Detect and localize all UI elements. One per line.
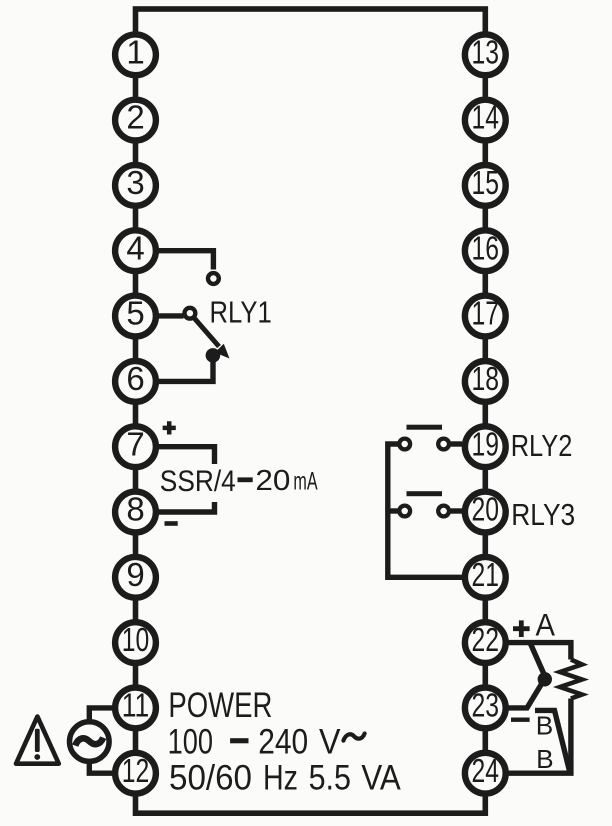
wire : terminal 11 to AC source: [89, 708, 112, 722]
terminal 17: [465, 295, 506, 337]
terminal 12: [115, 752, 156, 794]
svg-text:18: 18: [472, 360, 500, 397]
terminal 7: [115, 425, 156, 467]
wire : terminal 4 to RLY1 NC contact: [158, 251, 213, 270]
AC source symbol: [70, 722, 110, 762]
svg-text:1: 1: [126, 33, 144, 70]
svg-text:6: 6: [126, 360, 144, 397]
wire : terminal 12 to AC source: [89, 762, 112, 773]
svg-text:15: 15: [472, 164, 500, 201]
terminal 24: [465, 752, 506, 794]
wire : terminal 23 to junction: [506, 682, 543, 708]
svg-text:240: 240: [258, 723, 308, 762]
wire : RLY3 right contact to terminal 20: [449, 508, 462, 513]
svg-text:20: 20: [472, 491, 500, 528]
svg-text:20: 20: [255, 465, 290, 497]
svg-text:50/60: 50/60: [169, 759, 252, 798]
terminal 3: [115, 164, 156, 206]
wire : RLY2 left contact stub and common bus to terminal 21: [388, 444, 462, 577]
svg-text:V: V: [319, 723, 341, 762]
terminal 9: [115, 556, 156, 598]
svg-text:POWER: POWER: [168, 686, 272, 725]
wire : RLY3 left contact stub: [390, 508, 399, 513]
svg-text:17: 17: [472, 295, 500, 332]
wire : RLY2 right contact to terminal 19: [449, 441, 462, 446]
terminal 14: [465, 99, 506, 141]
terminal 22: [465, 621, 506, 663]
node : RLY2 left contact: [399, 439, 410, 450]
relay arm RLY1: [195, 319, 219, 347]
wire : B lead from terminal 23 side down to terminal 24 node: [535, 710, 570, 771]
node : RLY1 NC open contact: [208, 273, 219, 284]
svg-text:22: 22: [472, 621, 500, 658]
label : minus sign at terminal 8: [165, 521, 178, 526]
wire : terminal 6 to RLY1 NO node: [158, 362, 213, 382]
svg-text:19: 19: [472, 425, 500, 462]
terminal 20: [465, 491, 506, 533]
svg-text:14: 14: [472, 99, 500, 136]
label : minus sign at terminal 23: [511, 718, 530, 722]
svg-text:21: 21: [472, 556, 500, 593]
svg-text:13: 13: [472, 33, 500, 70]
svg-text:RLY3: RLY3: [511, 498, 575, 532]
svg-text:8: 8: [126, 491, 144, 528]
wire : terminal 7 SSR plus lead: [157, 447, 215, 464]
svg-text:11: 11: [122, 687, 150, 724]
svg-text:3: 3: [126, 164, 144, 201]
resistor RTD element: [560, 660, 582, 699]
svg-text:mA: mA: [293, 468, 317, 496]
terminal 4: [115, 229, 156, 271]
terminal 11: [115, 687, 156, 729]
svg-text:SSR/4: SSR/4: [160, 465, 236, 498]
svg-text:23: 23: [472, 687, 500, 724]
relay blade RLY3: [407, 491, 443, 496]
svg-text:9: 9: [126, 556, 144, 593]
wire : terminal 8 SSR minus lead: [157, 502, 215, 512]
svg-text:4: 4: [126, 229, 144, 266]
svg-text:2: 2: [126, 99, 144, 136]
terminal 23: [465, 687, 506, 729]
warning triangle: [16, 717, 59, 764]
svg-text:10: 10: [122, 621, 150, 658]
wire : resistor bottom to terminal 24: [506, 699, 571, 774]
svg-text:RLY1: RLY1: [210, 296, 272, 330]
svg-text:B: B: [536, 744, 554, 774]
svg-text:100: 100: [168, 723, 213, 762]
junction dot : thermocouple junction: [538, 672, 552, 686]
svg-text:12: 12: [122, 752, 150, 789]
terminal 19: [465, 425, 506, 467]
svg-text:24: 24: [472, 752, 500, 789]
svg-text:VA: VA: [361, 759, 401, 798]
label : plus sign at terminal 7: [163, 421, 176, 434]
svg-text:Hz: Hz: [263, 759, 298, 798]
terminal 2: [115, 99, 156, 141]
node : RLY3 right contact: [438, 506, 449, 517]
node : RLY1 common open contact: [185, 308, 196, 319]
label : plus sign at terminal 22: [513, 620, 530, 637]
wire : terminal 5 to RLY1 common contact: [157, 313, 184, 318]
svg-text:5: 5: [126, 295, 144, 332]
terminal 1: [115, 33, 156, 75]
wire : device outline rectangle: [136, 9, 486, 813]
terminal 13: [465, 33, 506, 75]
svg-text:16: 16: [472, 229, 500, 266]
terminal 6: [115, 360, 156, 402]
node : RLY2 right contact: [438, 439, 449, 450]
terminal 21: [465, 556, 506, 598]
svg-text:5.5: 5.5: [309, 759, 351, 798]
svg-text:7: 7: [126, 425, 144, 462]
relay blade RLY2: [407, 425, 443, 430]
svg-text:RLY2: RLY2: [511, 429, 573, 463]
node : RLY3 left contact: [399, 506, 410, 517]
wire : terminal 22 to sensor node A: [506, 643, 571, 660]
terminal 16: [465, 229, 506, 271]
terminal 15: [465, 164, 506, 206]
terminal 10: [115, 621, 156, 663]
terminal 18: [465, 360, 506, 402]
terminal 5: [115, 295, 156, 337]
svg-text:B: B: [536, 711, 554, 741]
wire : thermocouple plus diagonal: [530, 643, 545, 676]
terminal 8: [115, 491, 156, 533]
svg-text:A: A: [536, 607, 556, 643]
junction dot : RLY1 NO node: [206, 348, 221, 363]
